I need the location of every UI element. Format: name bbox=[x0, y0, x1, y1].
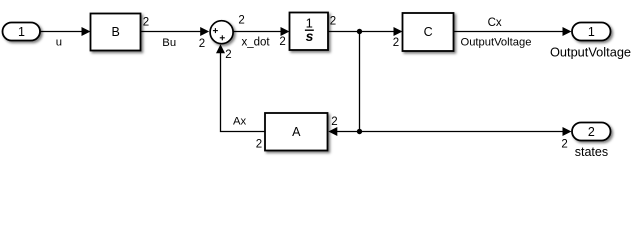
junction dot bottom bbox=[357, 129, 362, 134]
wire Cx/OutputVoltage: block C to outport 1 bbox=[454, 31, 564, 33]
svg-text:2: 2 bbox=[279, 36, 285, 48]
svg-text:Ax: Ax bbox=[233, 116, 247, 128]
svg-text:2: 2 bbox=[143, 17, 149, 29]
svg-text:OutputVoltage: OutputVoltage bbox=[461, 36, 532, 48]
svg-text:states: states bbox=[575, 145, 608, 159]
wire: integrator to block C bbox=[328, 31, 395, 33]
arrowhead into C bbox=[394, 27, 403, 36]
svg-text:2: 2 bbox=[561, 139, 567, 151]
arrowhead into A (pointing left) bbox=[328, 127, 337, 136]
svg-text:2: 2 bbox=[331, 116, 337, 128]
svg-text:s: s bbox=[306, 28, 314, 44]
inport 1 bbox=[3, 23, 41, 41]
wire: junction to block A input (leftward) bbox=[337, 131, 360, 133]
svg-text:OutputVoltage: OutputVoltage bbox=[550, 45, 631, 60]
svg-text:2: 2 bbox=[588, 125, 595, 139]
svg-text:1: 1 bbox=[18, 25, 25, 39]
arrowhead into outport 1 bbox=[563, 27, 572, 36]
block A bbox=[265, 113, 328, 151]
wire: junction to outport 2 (states) bbox=[360, 131, 564, 133]
svg-text:2: 2 bbox=[256, 139, 262, 151]
svg-text:Cx: Cx bbox=[488, 17, 502, 29]
svg-text:2: 2 bbox=[199, 38, 205, 50]
svg-text:2: 2 bbox=[238, 15, 244, 27]
svg-text:2: 2 bbox=[330, 15, 336, 27]
svg-text:2: 2 bbox=[393, 37, 399, 49]
arrowhead into sum bottom (pointing up) bbox=[216, 44, 225, 53]
sum block bbox=[210, 21, 233, 44]
outport 2 bbox=[572, 123, 611, 141]
svg-text:1: 1 bbox=[588, 25, 595, 39]
arrowhead into integrator bbox=[281, 27, 290, 36]
block C bbox=[403, 13, 454, 51]
wire x_dot: sum to integrator bbox=[234, 31, 282, 33]
svg-text:x_dot: x_dot bbox=[242, 37, 271, 49]
outport 1 bbox=[572, 23, 611, 41]
block B bbox=[91, 14, 141, 51]
svg-text:B: B bbox=[112, 25, 120, 39]
wire Ax: block A output left then up to sum bbox=[221, 52, 266, 132]
arrowhead into B bbox=[82, 27, 91, 36]
wire Bu: block B to sum bbox=[141, 31, 202, 33]
svg-text:Bu: Bu bbox=[162, 37, 176, 49]
plus sign (left input) bbox=[213, 28, 218, 33]
svg-text:C: C bbox=[424, 25, 433, 39]
arrowhead into outport 2 bbox=[563, 127, 572, 136]
junction dot top bbox=[357, 29, 362, 34]
wire u: inport 1 to block B bbox=[40, 31, 83, 33]
wire: vertical branch from junction down bbox=[359, 32, 361, 132]
svg-text:2: 2 bbox=[225, 49, 231, 61]
arrowhead into sum left bbox=[200, 27, 209, 36]
integrator block 1/s bbox=[290, 13, 329, 51]
svg-text:A: A bbox=[292, 125, 301, 139]
svg-text:u: u bbox=[56, 37, 62, 49]
plus sign (bottom input) bbox=[220, 35, 225, 40]
